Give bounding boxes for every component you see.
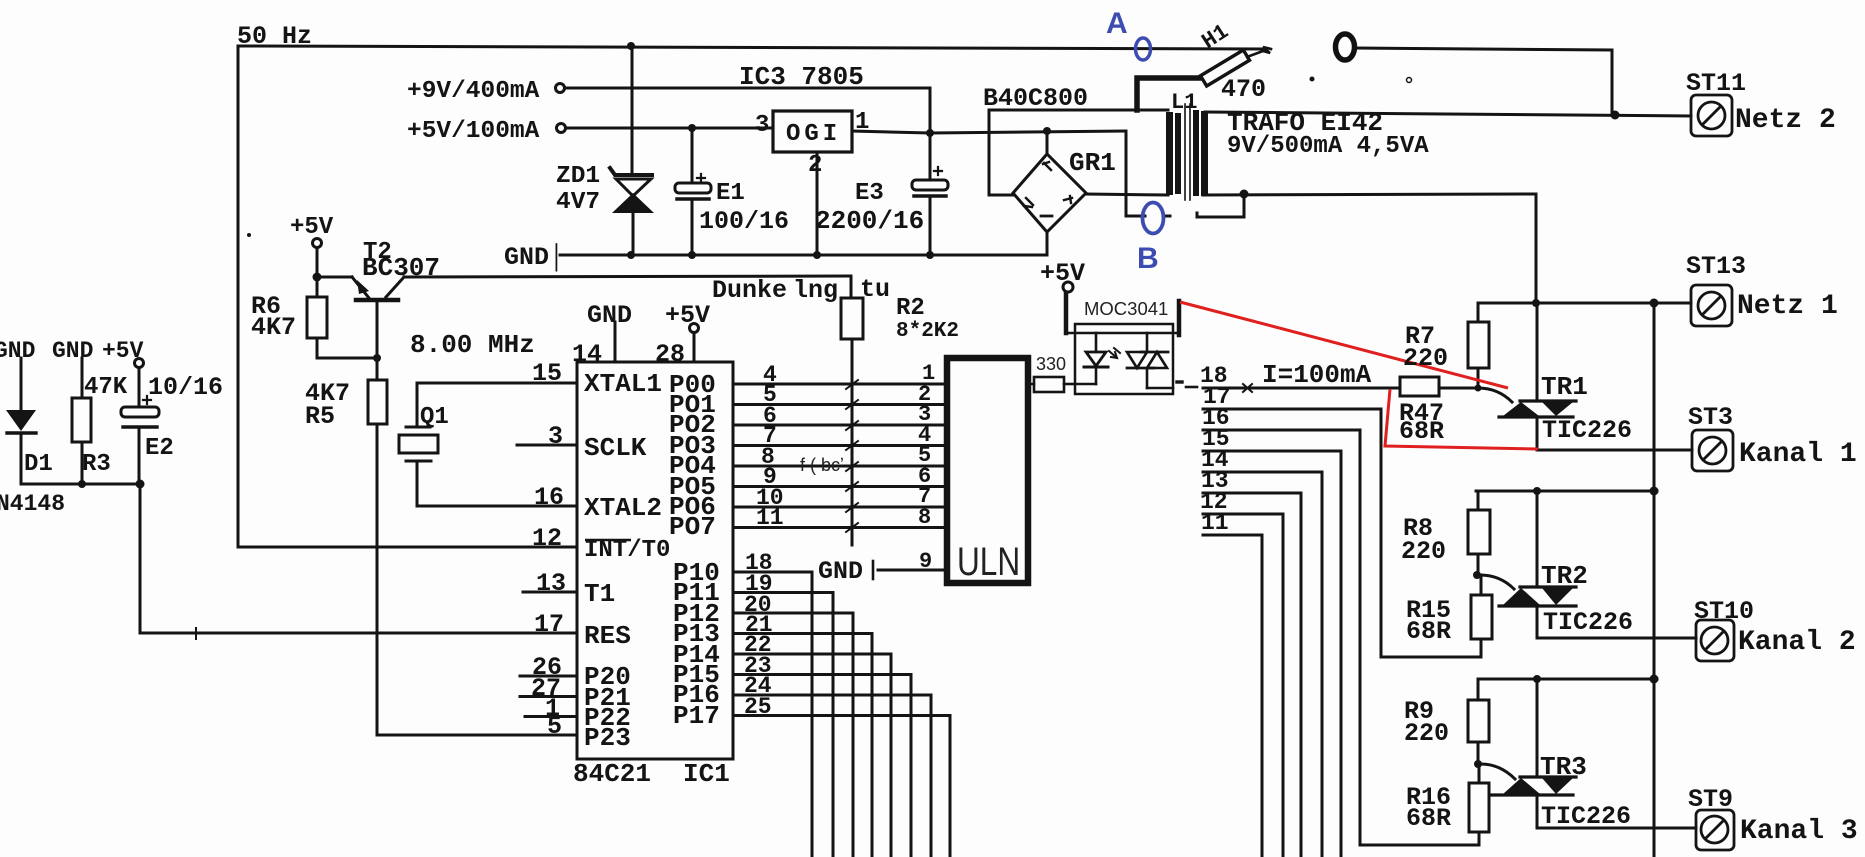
svg-text:XTAL2: XTAL2 [584,493,662,523]
terminal ST9 [1696,810,1734,850]
resistor 330 between ULN and MOC [1031,383,1034,386]
svg-text:11: 11 [756,505,784,531]
svg-text:BC307: BC307 [362,253,440,283]
wire: +9V rail [565,88,930,133]
wire: P16 pin24 fan [733,695,931,857]
svg-text:TIC226: TIC226 [1542,416,1632,445]
wire: ULN pin16 staircase [1203,430,1360,845]
resistor R2 8*2K2 network [850,276,853,298]
node: T2 base junction [373,354,381,362]
node: GND junction 7805 pin2 [813,251,821,259]
wire: P03 line [733,444,944,447]
wire: INT overline [585,539,631,542]
svg-text:10/16: 10/16 [148,373,223,402]
node: GND junction E1 [688,251,696,259]
svg-text:Netz 2: Netz 2 [1735,105,1836,136]
wire: P20 pin26 stub [520,675,577,678]
node: junction dot on top line at ZD1 branch [627,42,635,50]
node: small speck dot [1310,77,1315,82]
svg-text:ZD1: ZD1 [556,163,600,190]
wire: P13 pin21 fan [733,634,872,857]
wire: P22 pin1 stub [525,715,577,718]
resistor R8 220 [1477,491,1480,510]
svg-text:220: 220 [1403,344,1448,373]
wire: XTAL2 pin16 [417,505,577,508]
op-amp U2 MOC3041 optocoupler box [1075,324,1173,394]
transistor TR3 TIC226 triac [1520,775,1576,778]
wire: P11 pin19 fan [733,593,833,857]
svg-text:2: 2 [808,152,822,179]
wire: right bus vertical [1653,303,1656,857]
svg-text:220: 220 [1404,719,1449,748]
svg-text:25: 25 [744,694,772,720]
node: R3 bottom junction [78,480,86,488]
node: GND junction ZD1 [627,251,635,259]
svg-text:28: 28 [655,340,685,369]
svg-text:68R: 68R [1406,804,1451,833]
svg-text:3: 3 [548,422,563,451]
wire: ULN pin16 wire feeding R16 [1360,844,1479,847]
resistor R6 4K7 [316,281,319,297]
op-amp IC1 84C21 box [577,362,733,759]
svg-text:XTAL1: XTAL1 [584,369,662,399]
resistor R15 68R [1480,575,1483,595]
wire: thick elbow from H1 to transformer top [1137,78,1199,110]
wire: TR3 gate curve [1481,764,1515,779]
svg-text:16: 16 [534,483,564,512]
svg-text:+5V: +5V [1040,259,1085,288]
svg-text:Kanal 3: Kanal 3 [1740,816,1858,847]
node: TR2 top junction bus [1650,487,1659,496]
svg-text:13: 13 [536,569,566,598]
svg-text:E2: E2 [145,435,174,462]
svg-text:2200/16: 2200/16 [815,206,924,236]
annotation: blue ellipse B [1143,203,1164,234]
transistor T2 BC307 [313,239,322,248]
wire: ULN pin11 staircase [1203,535,1262,857]
wire: P21 pin27 stub [520,695,577,698]
svg-text:ST3: ST3 [1688,403,1733,432]
svg-text:9: 9 [919,549,932,574]
wire: ULN pin17 staircase to R15 [1203,409,1481,657]
svg-text:GND: GND [818,557,863,586]
svg-text:lng: lng [793,276,838,305]
resistor R5 4K7 [376,301,379,380]
node: Netz2 junction dot [1611,111,1620,120]
wire: P01 line [733,403,944,406]
wire: bump right elbow to secondary line [1197,195,1244,217]
svg-text:I=100mA: I=100mA [1262,360,1372,390]
wire: MOC internal top rail [1066,332,1179,335]
wire: P10 pin18 fan [733,572,812,857]
svg-text:GND: GND [587,301,632,330]
svg-text:P17: P17 [673,701,720,731]
svg-text:68R: 68R [1399,417,1444,446]
wire: Kanal2 line to ST10 [1537,637,1696,640]
wire: TR3 section top line [1478,678,1657,681]
svg-text:N4148: N4148 [0,491,65,517]
svg-text:5: 5 [547,712,562,741]
wire: MOC output wire 18 to R47 [1186,386,1197,389]
svg-text:RES: RES [584,621,631,651]
wire: pin14 GND stub [614,322,617,362]
svg-text:+5V: +5V [665,301,710,330]
wire: TR2 section top line [1476,490,1657,493]
svg-text:B40C800: B40C800 [983,84,1088,113]
svg-text:330: 330 [1036,354,1066,374]
svg-text:+5V: +5V [102,338,144,364]
node: E1 top junction [688,124,696,132]
svg-text:15: 15 [532,359,562,388]
node: E2 bottom junction [136,480,145,489]
svg-text:E1: E1 [716,180,745,207]
wire: 7805 pin2 to GND [816,152,819,255]
svg-text:tu: tu [860,275,890,304]
wire: P04 line [733,465,944,468]
svg-text:9V/500mA 4,5VA: 9V/500mA 4,5VA [1227,133,1429,160]
svg-text:17: 17 [534,610,564,639]
transistor TR2 TIC226 triac [1520,585,1576,588]
wire: bridge AC loop rectangle [989,110,1168,195]
wire: LED light arrow [1109,348,1120,358]
terminal: +9V/400mA open circle [556,84,565,93]
diode D1 1N4148 [20,358,23,410]
resistor R3 47K [81,358,84,398]
wire: reset RC bottom line [21,484,140,633]
wire: SCLK pin3 stub [517,444,577,447]
svg-text:Q1: Q1 [420,404,449,431]
wire: P17 pin25 fan [733,716,950,857]
zener ZD1 4V7 [631,46,634,172]
node: +9V / E3 junction [926,129,934,137]
svg-text:GR1: GR1 [1069,148,1116,178]
wire: P07 line [733,526,944,529]
capacitor E3 2200/16 [929,133,932,180]
wire: P12 pin20 fan [733,613,853,857]
svg-text:Kanal 2: Kanal 2 [1738,627,1856,658]
svg-text:SCLK: SCLK [584,433,647,463]
wire: P15 pin23 fan [733,675,911,857]
node: TR2 gate junction [1473,571,1481,579]
svg-text:8.00 MHz: 8.00 MHz [410,330,535,360]
svg-text:TR2: TR2 [1541,561,1588,591]
svg-text:D1: D1 [24,451,53,478]
node: bridge + output junction [1043,127,1051,135]
wire: pin28 +5V stub [690,324,699,333]
node: Netz1 junction at TR1 column [1532,299,1540,307]
svg-text:100/16: 100/16 [699,207,789,236]
svg-text:11: 11 [1201,510,1229,536]
svg-text:Dunke: Dunke [712,276,787,305]
op-amp U3 ULN driver box [947,358,1028,583]
wire: ULN pin15 staircase [1203,451,1341,857]
wire: P06 line [733,506,944,509]
label: ULN [957,538,1020,583]
svg-text:TR3: TR3 [1540,752,1587,782]
wire: transformer secondary top to ST11 [1205,112,1691,116]
wire: MOC pin6 thick stub [1177,301,1182,335]
terminal: +5V supply for MOC [1063,282,1073,292]
svg-text:T1: T1 [584,579,615,609]
resistor R7 220 [1477,303,1480,322]
svg-text:TIC226: TIC226 [1543,608,1633,637]
rectifier GR1 B40C800 bridge [1013,154,1086,232]
svg-text:IC1: IC1 [683,759,730,789]
svg-text:OGI: OGI [786,121,841,148]
svg-text:3: 3 [755,112,769,139]
svg-text:f ( bcʼ: f ( bcʼ [800,455,844,475]
svg-text:47K: 47K [84,374,128,401]
transistor: MOC internal triac [1146,333,1149,352]
wire: top 50Hz mains line [238,46,1264,547]
wire: bump segment right of ellipse B [1163,215,1170,218]
wire: Kanal1 line to ST3 [1537,449,1692,452]
wire: P00 line to ULN [733,383,944,386]
svg-text:R3: R3 [82,451,111,478]
annotation: blue ellipse A [1136,38,1151,60]
wire: P14 pin22 fan [733,654,891,857]
node: small speck circle [1407,78,1412,83]
svg-text:84C21: 84C21 [573,759,651,789]
svg-text:R5: R5 [305,402,335,431]
node: TR3 gate junction [1474,760,1482,768]
annotation: red line from MOC to TR1 gate [1180,302,1508,388]
transistor TR1 TIC226 triac [1520,399,1576,402]
wire: GND rail [560,232,1047,255]
wire: P02 line [733,424,944,427]
svg-text:Kanal 1: Kanal 1 [1739,439,1857,470]
svg-text:Netz 1: Netz 1 [1737,291,1838,322]
svg-text:12: 12 [532,524,562,553]
node: GND junction E3 [926,251,934,259]
annotation: black ellipse [1336,34,1355,60]
node: TR2 top junction left [1533,487,1541,495]
svg-text:+5V: +5V [290,214,334,241]
capacitor E1 100/16 [691,128,694,183]
wire: RES pin17 line [140,632,577,635]
terminal ST13 [1691,285,1732,326]
wire: ULN pin13 staircase [1203,493,1301,857]
node: TR3 top junction left [1533,675,1541,683]
resistor H1 470 (diagonal) [1200,50,1249,86]
resistor R47 68R [1400,377,1439,396]
svg-text:+5V/100mA: +5V/100mA [407,118,540,145]
svg-text:8*2K2: 8*2K2 [896,320,959,343]
op-amp U1 7805 regulator box (OGI) [773,111,852,152]
wire: ULN pin12 staircase [1203,514,1283,857]
wire: T1 pin13 stub [523,591,577,594]
wire: ULN pin14 staircase [1203,472,1322,857]
annotation: red bracket around R47 [1385,389,1538,449]
wire: INT/T0 pin12 from border [238,546,577,549]
wire: +5V rail to 7805 pin 3 [566,127,773,130]
svg-text:ULN: ULN [957,538,1020,583]
wire: P23 pin5 from R5 [377,734,577,737]
crystal Q1 [416,383,419,427]
wire: top line to right bend down to Netz2 [1355,48,1612,113]
svg-text:68R: 68R [1406,617,1451,646]
svg-text:L1: L1 [1171,90,1197,115]
svg-text:A: A [1106,7,1128,40]
wire: P05 line [733,485,944,488]
svg-text:R2: R2 [896,295,925,322]
svg-text:50 Hz: 50 Hz [237,22,312,51]
terminal ST11 [1691,95,1732,136]
wire: T2 collector line to R2 [404,276,851,277]
node: Netz1 junction at right bus [1650,299,1659,308]
svg-text:ST10: ST10 [1694,597,1754,626]
wire: XTAL1 pin15 [417,382,577,385]
wire: R47 to TR1 gate [1439,387,1478,390]
svg-text:MOC3041: MOC3041 [1084,298,1168,319]
svg-text:E3: E3 [855,180,884,207]
capacitor E2 10/16 [135,359,144,368]
svg-text:4V7: 4V7 [556,189,600,216]
wire: Netz1 line to ST13 [1478,302,1691,305]
diode: MOC internal LED [1095,333,1098,352]
svg-text:PO7: PO7 [669,512,716,542]
wire: Kanal3 line to ST9 [1537,827,1696,830]
svg-text:B: B [1137,242,1159,275]
wire: transformer secondary bottom line [1203,194,1536,303]
wire: bridge right vertex to transformer [1086,194,1168,195]
svg-text:P23: P23 [584,723,631,753]
svg-text:1: 1 [855,109,869,136]
resistor R16 68R [1478,764,1481,783]
svg-text:TIC226: TIC226 [1541,802,1631,831]
wire: TR2 gate curve [1480,575,1514,589]
node: secondary line junction dot [1240,190,1249,199]
svg-text:4K7: 4K7 [251,313,296,342]
svg-text:+9V/400mA: +9V/400mA [407,78,540,105]
svg-text:GND│: GND│ [504,243,564,272]
svg-text:220: 220 [1401,537,1446,566]
terminal ST10 [1696,620,1734,661]
wire: GNDI to ULN pin 9 [878,569,944,572]
svg-text:14: 14 [572,340,602,369]
node: TR3 top junction bus [1650,675,1659,684]
svg-text:470: 470 [1221,75,1266,104]
terminal: +5V/100mA open circle [557,124,566,133]
transformer L1 windings [1166,112,1173,195]
svg-text:ST13: ST13 [1686,252,1746,281]
wire: 7805 output node to bridge [852,131,1126,133]
svg-text:GND: GND [52,338,93,364]
svg-text:TR1: TR1 [1541,372,1588,402]
resistor R9 220 [1477,679,1480,700]
svg-text:IC3 7805: IC3 7805 [739,62,864,92]
terminal ST3 [1692,430,1733,471]
svg-text:8: 8 [918,505,931,530]
svg-text:GND: GND [0,338,35,364]
node: speck dot left [247,233,251,237]
wire: AC return bump below transformer [1126,131,1145,216]
